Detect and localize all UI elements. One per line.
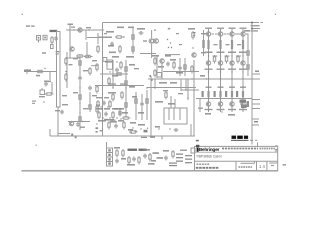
text label T107 [151,160,156,162]
wire W5 [49,129,51,136]
text label T97 [244,30,250,32]
feeder wire to bus box a [170,96,172,108]
resistor R30 [146,97,148,106]
text label T80 [217,69,225,70]
power stub label [251,25,260,26]
text label T29 [126,56,134,58]
resistor R62 [116,149,118,158]
node N15 [192,47,193,48]
text label T70 [104,119,108,120]
resistor R63 [122,149,124,158]
wire W21 [125,60,127,118]
node N49 [231,97,232,98]
transistor Q12 [218,61,222,65]
text label T102 [127,164,135,166]
registration speck top-right [275,14,276,15]
text label T88 [240,28,247,29]
text label T62 [96,108,103,110]
capacitor C5 [60,110,64,115]
node N45 [220,97,221,98]
node N12 [170,42,171,43]
upper link wire b [165,54,180,56]
text label T37 [129,64,135,66]
resistor R8 [65,73,67,82]
text label T45 [130,122,136,124]
rail dash marks b [120,83,127,84]
resistor R3 [36,70,45,72]
svg-text:▮Behringer: ▮Behringer [196,147,219,153]
node N39 [208,71,209,72]
text label T92 [239,109,247,110]
emitter resistor R52 left [225,91,227,97]
text label T23 [128,27,134,29]
title block frame [195,146,278,171]
text label T95 [237,44,241,45]
rail drop wire b [185,79,187,91]
node N38 [208,55,209,56]
base tick W33 [203,33,214,35]
resistor R28 [120,61,122,70]
capacitor C18 [174,128,179,132]
capacitor C17 [118,112,122,117]
input jack J2 [37,36,41,43]
right edge connector stub group 3 [252,100,260,109]
sheet number text [259,164,265,169]
node N21 [132,127,133,128]
text label T78 [217,28,224,29]
short link wire [91,65,98,67]
text label T82 [217,109,225,110]
resistor R26 [125,79,127,88]
svg-text:1 4: 1 4 [259,164,265,169]
node N27 [107,106,108,107]
text label T10 [69,64,73,65]
transistor Q6 [192,53,196,57]
text label T56 [178,93,183,94]
resistor R58 [225,55,227,64]
legend dash pair b [157,157,164,159]
text label T12 [83,70,88,71]
resistor R67 [172,150,174,159]
text label T73 [205,28,212,29]
node N19 [112,87,113,88]
text label T16 [92,95,97,96]
text label T2 [71,27,75,28]
node N55 [221,111,222,112]
node N41 [208,97,209,98]
text label T11 [73,58,78,59]
text label T40 [134,68,139,69]
transistor Q15 [230,61,234,65]
text label T51 [170,59,176,61]
node N17 [116,61,117,62]
node N30 [116,117,117,118]
text label T28 [112,56,119,58]
text label T58 [168,103,175,105]
node N8 [65,71,66,72]
date field text [239,166,253,168]
text label T84 [228,52,236,54]
signal rail wire b [147,87,196,89]
relay aux contact [103,58,107,62]
capacitor C15 [102,101,106,106]
node N54 [206,78,207,79]
upper link wire a [140,53,156,55]
manufacturer address text [222,149,277,151]
capacitor C10 [118,110,122,115]
text label T18 [62,104,68,105]
resistor R6 [84,55,93,57]
text label T53 [159,82,167,84]
title block logo row divider [195,151,278,153]
left output column parts [201,30,206,56]
resistor R25 [125,65,127,74]
text label T33 [188,28,195,30]
node N31 [96,123,97,124]
wire W12 [79,55,81,130]
text label T17 [62,95,67,96]
wire W14 [89,92,91,112]
manufacturer logo [196,147,219,153]
wire W11 [86,42,88,58]
legend equals marks [169,163,177,167]
resistor R38 [191,65,193,74]
text label T30 [168,28,170,30]
wire W4 [57,107,59,136]
legend small box [191,148,195,153]
node N16 [109,71,110,72]
node N3 [44,68,45,69]
capacitor C11 [140,102,144,107]
preset resistor R90 [40,88,45,95]
drawn-by field text [196,164,219,168]
rail drop wire a [180,79,182,91]
text label T8 [32,101,36,102]
emitter resistor R53 right [231,91,233,97]
resistor R15 [96,85,98,94]
resistor R10 [79,93,81,102]
text label T24 [108,45,114,47]
resistor R44 [122,117,131,119]
resistor R33 [129,131,138,133]
lower output rail wire [196,98,252,100]
node N6 [88,56,89,57]
text label T89 [239,52,247,54]
capacitor C13 [166,62,170,67]
scale field tick [269,163,277,166]
legend stacked dashes col2 [185,155,192,163]
text label T103 [143,149,150,151]
text label T99 [228,114,235,116]
text label T94 [226,44,230,45]
resistor R35 [154,69,156,78]
text label T43 [106,119,114,121]
wire W29 [154,79,156,88]
revision stamp text [231,136,257,141]
resistor R1 [51,36,53,45]
wire W7 [49,72,51,81]
date field bracket [241,161,255,163]
text label T15 [92,60,97,61]
capacitor C8 [139,31,144,35]
wire W15 [85,30,87,40]
capacitor C2 [44,82,48,87]
input label dash row [26,25,35,26]
resistor R19 [132,33,134,42]
dark input bar [50,30,58,32]
node N42 [220,55,221,56]
emitter resistor R51 [231,40,233,49]
node N35 [131,132,132,133]
current mirror bar [153,39,155,44]
wire W24 [146,90,148,120]
text label T79 [217,52,225,54]
transistor Q18 [241,61,245,65]
resistor R17 [115,36,124,38]
main schematic enclosure box top edge [103,22,253,24]
text label T46 [138,124,145,126]
text label T68 [122,112,128,114]
lower border step wire [58,133,70,135]
text label T55 [163,90,168,91]
capacitor C19 [115,159,119,164]
node N14 [171,47,172,48]
small box part U7 [157,73,162,78]
base dash pair col1 [198,108,203,109]
input cable bus J1 [57,32,61,108]
wire W1 [66,29,104,31]
plus-dash mark [42,52,46,53]
tick above title block [257,143,259,148]
resistor R66 [149,153,151,162]
text label T34 [105,61,112,63]
node N13 [168,47,169,48]
dark corner blob above title block [196,140,200,148]
text label T19 [55,110,60,111]
node N50 [242,55,243,56]
node N24 [154,87,155,88]
wire W19 [151,44,153,58]
wire W6 [24,71,56,73]
capacitor C20 [132,157,136,162]
resistor R37 [184,63,186,72]
node N9 [82,121,83,122]
node N51 [242,71,243,72]
resistor R36 [173,61,175,70]
text label T22 [117,27,124,29]
signal rail wire [95,85,144,87]
capacitor C16 [104,112,108,117]
node N7 [79,87,80,88]
text label T81 [218,87,224,88]
text label T3 [86,27,91,28]
node N48 [231,78,232,79]
marks above lower border b [150,137,155,138]
wire W17 [132,28,134,54]
wire W10 [69,24,71,58]
node N26 [100,106,101,107]
node N47 [231,71,232,72]
resistor R39 [165,91,167,100]
output column wire W41 [242,29,244,112]
text label T4 [104,33,107,34]
wire W2 [87,37,112,39]
coupling wire W37 [225,55,230,57]
resistor R24 [112,93,114,102]
wire W22 [135,92,137,120]
marks at lower border b [75,136,77,138]
node N18 [125,87,126,88]
nested bus corner box U9 [164,108,187,124]
title block field divider 2 [256,161,258,171]
legend bar 2 [139,149,147,151]
legend bar 1 [128,149,138,151]
transistor Q13 [218,102,222,106]
bias dash [143,40,147,41]
resistor R13 [89,103,91,112]
transistor Q14 [230,32,234,36]
text label T39 [114,108,121,110]
transistor Q1 [78,28,82,32]
resistor R9 [79,59,81,68]
text label T74 [205,52,213,54]
text label T44 [118,120,124,122]
node N28 [102,117,103,118]
output column wire W32 [208,29,210,112]
main schematic enclosure box right edge [251,23,253,145]
emitter resistor R45 [207,40,209,49]
text label T106 [180,150,187,151]
power stub label 2 [251,30,259,31]
capacitor C6 [76,122,80,127]
text label T71 [111,120,116,121]
right edge connector stub group 2 [252,71,260,80]
emitter resistor R54 [242,40,244,49]
marker bracket right [193,32,196,36]
lower section bottom border wire [50,135,195,137]
emitter resistor R55 left [236,91,238,97]
base tick W42 [238,33,249,35]
node dot power rail [251,28,253,30]
text label T31 [176,33,179,34]
wire W30 [187,79,189,100]
text label T76 [206,87,212,88]
node N56 [153,163,154,164]
node dot at top-right corner [251,22,253,24]
text label T85 [228,69,236,70]
lower link wire [68,121,90,123]
transistor Q8 [206,32,210,36]
speck left-mid [36,145,37,146]
node N33 [135,130,136,131]
node N40 [208,78,209,79]
transistor Q2 [70,47,74,51]
text label T93 [214,44,218,45]
node N36 [158,128,159,129]
emitter resistor R46 left [202,91,204,97]
node N10 [123,36,124,37]
node N11 [167,39,168,40]
node N4 [51,82,52,83]
text label T38 [129,86,135,88]
registration speck top-left [22,14,23,15]
text label T77 [205,109,213,110]
legend stacked dashes col1 [176,154,183,162]
emitter resistor R50 right [219,91,221,97]
resistor R61 [247,63,249,72]
text label T54 [170,82,177,84]
resistor R20 [132,45,134,54]
node N44 [220,78,221,79]
wire W18 [151,30,153,38]
marks at lower border a [71,134,73,136]
transistor Q10 [206,102,210,106]
node N53 [242,97,243,98]
resistor R23 [121,91,123,100]
power stub wire top [253,22,263,24]
relay K1 body [107,60,113,69]
text label T69 [100,130,104,131]
output column wire W35 [220,29,222,112]
text label T75 [205,69,213,70]
resistor R18 [119,45,121,54]
text label T27 [154,30,156,31]
node N52 [242,78,243,79]
text label T25 [109,52,116,54]
title block field divider 1 [235,161,237,171]
wire W25 [156,55,158,78]
text label T7 [39,96,45,97]
resistor R22 [108,77,110,86]
text label T1 [68,24,74,26]
left feed wire [100,73,128,75]
emitter resistor R47 right [207,91,209,97]
text label T64 [112,108,118,110]
resistor R34 [154,57,156,66]
node N1 [73,29,74,30]
capacitor C14 [178,66,182,71]
node N29 [109,117,110,118]
legend strip lead-in wire [106,142,108,148]
resistor R14 [96,63,98,72]
title block title row divider [195,160,278,162]
node N2 [88,29,89,30]
schematic title text [197,155,223,159]
bus side marks [56,51,60,55]
capacitor C9 [115,68,119,73]
resistor R16 [96,105,98,114]
text label T21 [106,31,114,33]
node N23 [191,78,192,79]
input jack J3 [43,35,47,40]
transistor Q16 [230,102,234,106]
rail dash marks a [108,83,116,84]
resistor R64 [128,156,130,165]
node N34 [147,128,148,129]
resistor R7 [65,57,67,66]
node N37 [169,128,170,129]
text label T91 [240,87,246,88]
text label T49 [158,66,164,68]
dash outside title block right [283,164,287,165]
text label T86 [229,87,235,88]
text label T32 [179,44,182,45]
node N25 [187,97,188,98]
resistor R4 [45,93,54,95]
text label T36 [108,92,116,94]
resistor R32 [123,121,125,130]
coupling wire W40 [236,55,241,57]
